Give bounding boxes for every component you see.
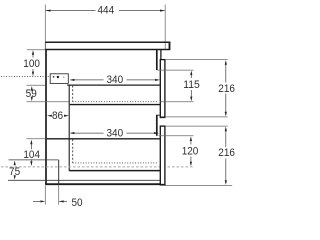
ext line y=59.6 (216a top) bbox=[166, 59, 228, 61]
countertop bbox=[45, 41, 170, 43]
front apron above upper drawer front bbox=[160, 50, 162, 60]
upper drawer box front inner face (hidden) bbox=[72, 86, 74, 102]
lower drawer box top edge bbox=[47, 138, 161, 140]
lower drawer front (right) bbox=[160, 126, 165, 185]
ext line y=101.7 right (115 bottom) bbox=[161, 101, 194, 103]
svg-text:120: 120 bbox=[182, 146, 199, 158]
svg-text:444: 444 bbox=[98, 5, 115, 17]
lower handle channel side bbox=[58, 160, 60, 184]
dimension 104 bbox=[30, 144, 32, 149]
slide mark bbox=[63, 76, 64, 77]
upper drawer box front wall bbox=[68, 85, 70, 171]
svg-text:100: 100 bbox=[23, 58, 40, 70]
lower drawer box bottom bbox=[69, 170, 160, 172]
svg-text:86: 86 bbox=[52, 110, 63, 122]
dimension 50 bbox=[33, 200, 40, 202]
ext line y=126.1 (216b top) bbox=[166, 125, 228, 127]
dimension 340 lower bbox=[71, 132, 104, 134]
dimension 340 upper bbox=[71, 79, 104, 81]
svg-text:340: 340 bbox=[107, 127, 124, 139]
dimension 216 upper bbox=[225, 62, 227, 83]
right back band middle segment bbox=[156, 115, 158, 136]
cabinet bottom panel bottom edge bbox=[45, 183, 165, 185]
slide screw dot bbox=[57, 76, 59, 78]
dotted reference line y=76.6 bbox=[1, 76, 51, 78]
upper drawer box top edge bbox=[67, 84, 160, 86]
gray dashed reference line y=166.9 bbox=[1, 166, 194, 168]
drawer slide handle box (upper) bbox=[50, 74, 68, 84]
upper drawer inner bottom (hidden dotted) bbox=[73, 101, 159, 103]
dimension 216 lower bbox=[225, 129, 227, 148]
svg-text:59: 59 bbox=[26, 88, 37, 100]
upper drawer front (right) bbox=[160, 60, 165, 118]
ext line y=116.8 (216a bottom) bbox=[166, 116, 228, 118]
ext line y=135.8 (120 top) bbox=[159, 135, 194, 137]
ext line y=185.5 (216b bottom) bbox=[165, 185, 232, 187]
cabinet bottom panel top face bbox=[8, 179, 160, 181]
extension line right x=165.2 bbox=[164, 5, 166, 49]
lower handle channel top line / dim75 top ref bbox=[9, 159, 59, 161]
svg-text:115: 115 bbox=[183, 79, 200, 91]
svg-text:340: 340 bbox=[107, 74, 124, 86]
lower drawer box front inner face (hidden) bbox=[72, 139, 74, 163]
dimension 100 bbox=[32, 52, 34, 57]
dimension 75 bbox=[14, 161, 16, 166]
countertop right edge thick bbox=[169, 42, 171, 51]
slide screw square bbox=[53, 76, 55, 78]
dim 50 extension lines bbox=[44, 185, 46, 204]
dim 59 references bbox=[27, 84, 46, 86]
dimension 115 bbox=[190, 73, 192, 79]
dimension 120 bbox=[190, 138, 192, 144]
upper drawer box bottom bbox=[70, 104, 161, 106]
ext line y=70.1 (115 top) bbox=[158, 69, 194, 71]
lower drawer inner bottom (hidden dotted) bbox=[73, 162, 159, 164]
band middle corner hline bbox=[156, 114, 160, 116]
svg-text:104: 104 bbox=[23, 149, 40, 161]
right back band upper segment bbox=[156, 50, 158, 70]
svg-text:50: 50 bbox=[71, 197, 82, 209]
svg-text:216: 216 bbox=[218, 147, 235, 159]
dim 104 reference ext bbox=[27, 138, 46, 140]
lower drawer front bottom edge thick bbox=[160, 184, 166, 186]
dimension 444 line bbox=[46, 10, 96, 12]
upper drawer front bottom edge thick bbox=[160, 116, 166, 118]
dimension 59 bbox=[31, 86, 33, 91]
dim 100 top reference (countertop bottom extended left) bbox=[27, 49, 45, 51]
svg-text:75: 75 bbox=[9, 166, 20, 178]
cabinet left wall (drawer fronts edge-on) bbox=[45, 50, 47, 185]
svg-text:216: 216 bbox=[218, 83, 235, 95]
dimension 86 bbox=[47, 115, 52, 117]
extension line left x=45.3 bbox=[44, 5, 46, 42]
